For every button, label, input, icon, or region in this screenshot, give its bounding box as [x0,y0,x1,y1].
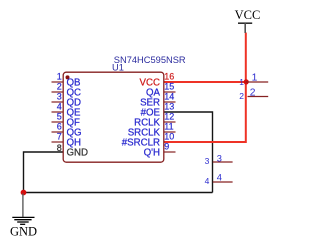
svg-text:4: 4 [217,172,222,182]
svg-text:Q'H: Q'H [144,147,160,158]
svg-text:SN74HC595NSR: SN74HC595NSR [114,55,186,65]
svg-text:2: 2 [57,82,62,92]
svg-text:8: 8 [57,143,62,153]
svg-text:2: 2 [239,91,244,101]
svg-text:3: 3 [205,156,210,166]
pin 10 #SRCLR [122,132,175,149]
pin 11 SRCLK [128,122,176,139]
svg-text:U1: U1 [112,63,124,73]
pin 2 QC [52,82,82,99]
svg-text:15: 15 [164,82,174,92]
svg-text:11: 11 [164,122,173,132]
pin 1 QB [52,72,81,89]
svg-text:5: 5 [57,112,62,122]
svg-text:12: 12 [164,112,174,122]
pin-1 marker dot [66,75,70,79]
svg-text:3: 3 [57,92,62,102]
power port VCC [235,8,261,33]
svg-text:3: 3 [217,153,222,163]
connector pin 4 [205,172,233,186]
wire: red VCC vertical from power symbol down to pin 10 row [164,33,246,143]
svg-text:1: 1 [239,77,244,87]
connector pin 2 [239,88,268,101]
svg-text:GND: GND [67,147,89,158]
svg-text:7: 7 [57,132,62,142]
pin 9 Q'H [144,142,176,159]
svg-text:GND: GND [10,225,37,239]
connector pin 1 [239,73,268,87]
wire: black net from pin 13 (#OE) right then down [164,112,213,193]
pin 7 QH [52,132,82,149]
svg-text:1: 1 [252,73,258,84]
power port GND [10,194,37,239]
svg-text:10: 10 [164,132,174,142]
wire: black net from pin 8 (GND) left then down [24,152,64,193]
pin 6 QG [52,122,82,139]
wire: red from pin 16 (VCC) to junction [164,81,246,83]
pin 8 GND [57,143,88,159]
svg-text:6: 6 [57,122,62,132]
pin 4 QE [52,102,82,119]
pin 12 RCLK [134,112,175,129]
svg-text:4: 4 [205,176,210,186]
svg-text:13: 13 [164,102,174,112]
svg-text:2: 2 [250,88,256,99]
pin 3 QD [52,92,82,109]
connector pin 3 [205,153,233,166]
svg-text:VCC: VCC [235,8,261,22]
svg-text:16: 16 [164,72,174,82]
pin 13 #OE [141,102,175,119]
op IC body U1 [63,72,164,162]
pin 5 QF [52,112,81,129]
pin 16 VCC [140,72,175,89]
junction dot at GND net [21,190,27,196]
junction dot at VCC net [244,79,249,84]
pin 14 SER [140,92,175,109]
svg-text:9: 9 [164,142,169,152]
svg-text:14: 14 [164,92,174,102]
svg-text:4: 4 [57,102,62,112]
pin 15 QA [146,82,176,99]
svg-text:1: 1 [57,72,62,82]
wire: black bottom net from GND junction to vertical [24,192,213,194]
